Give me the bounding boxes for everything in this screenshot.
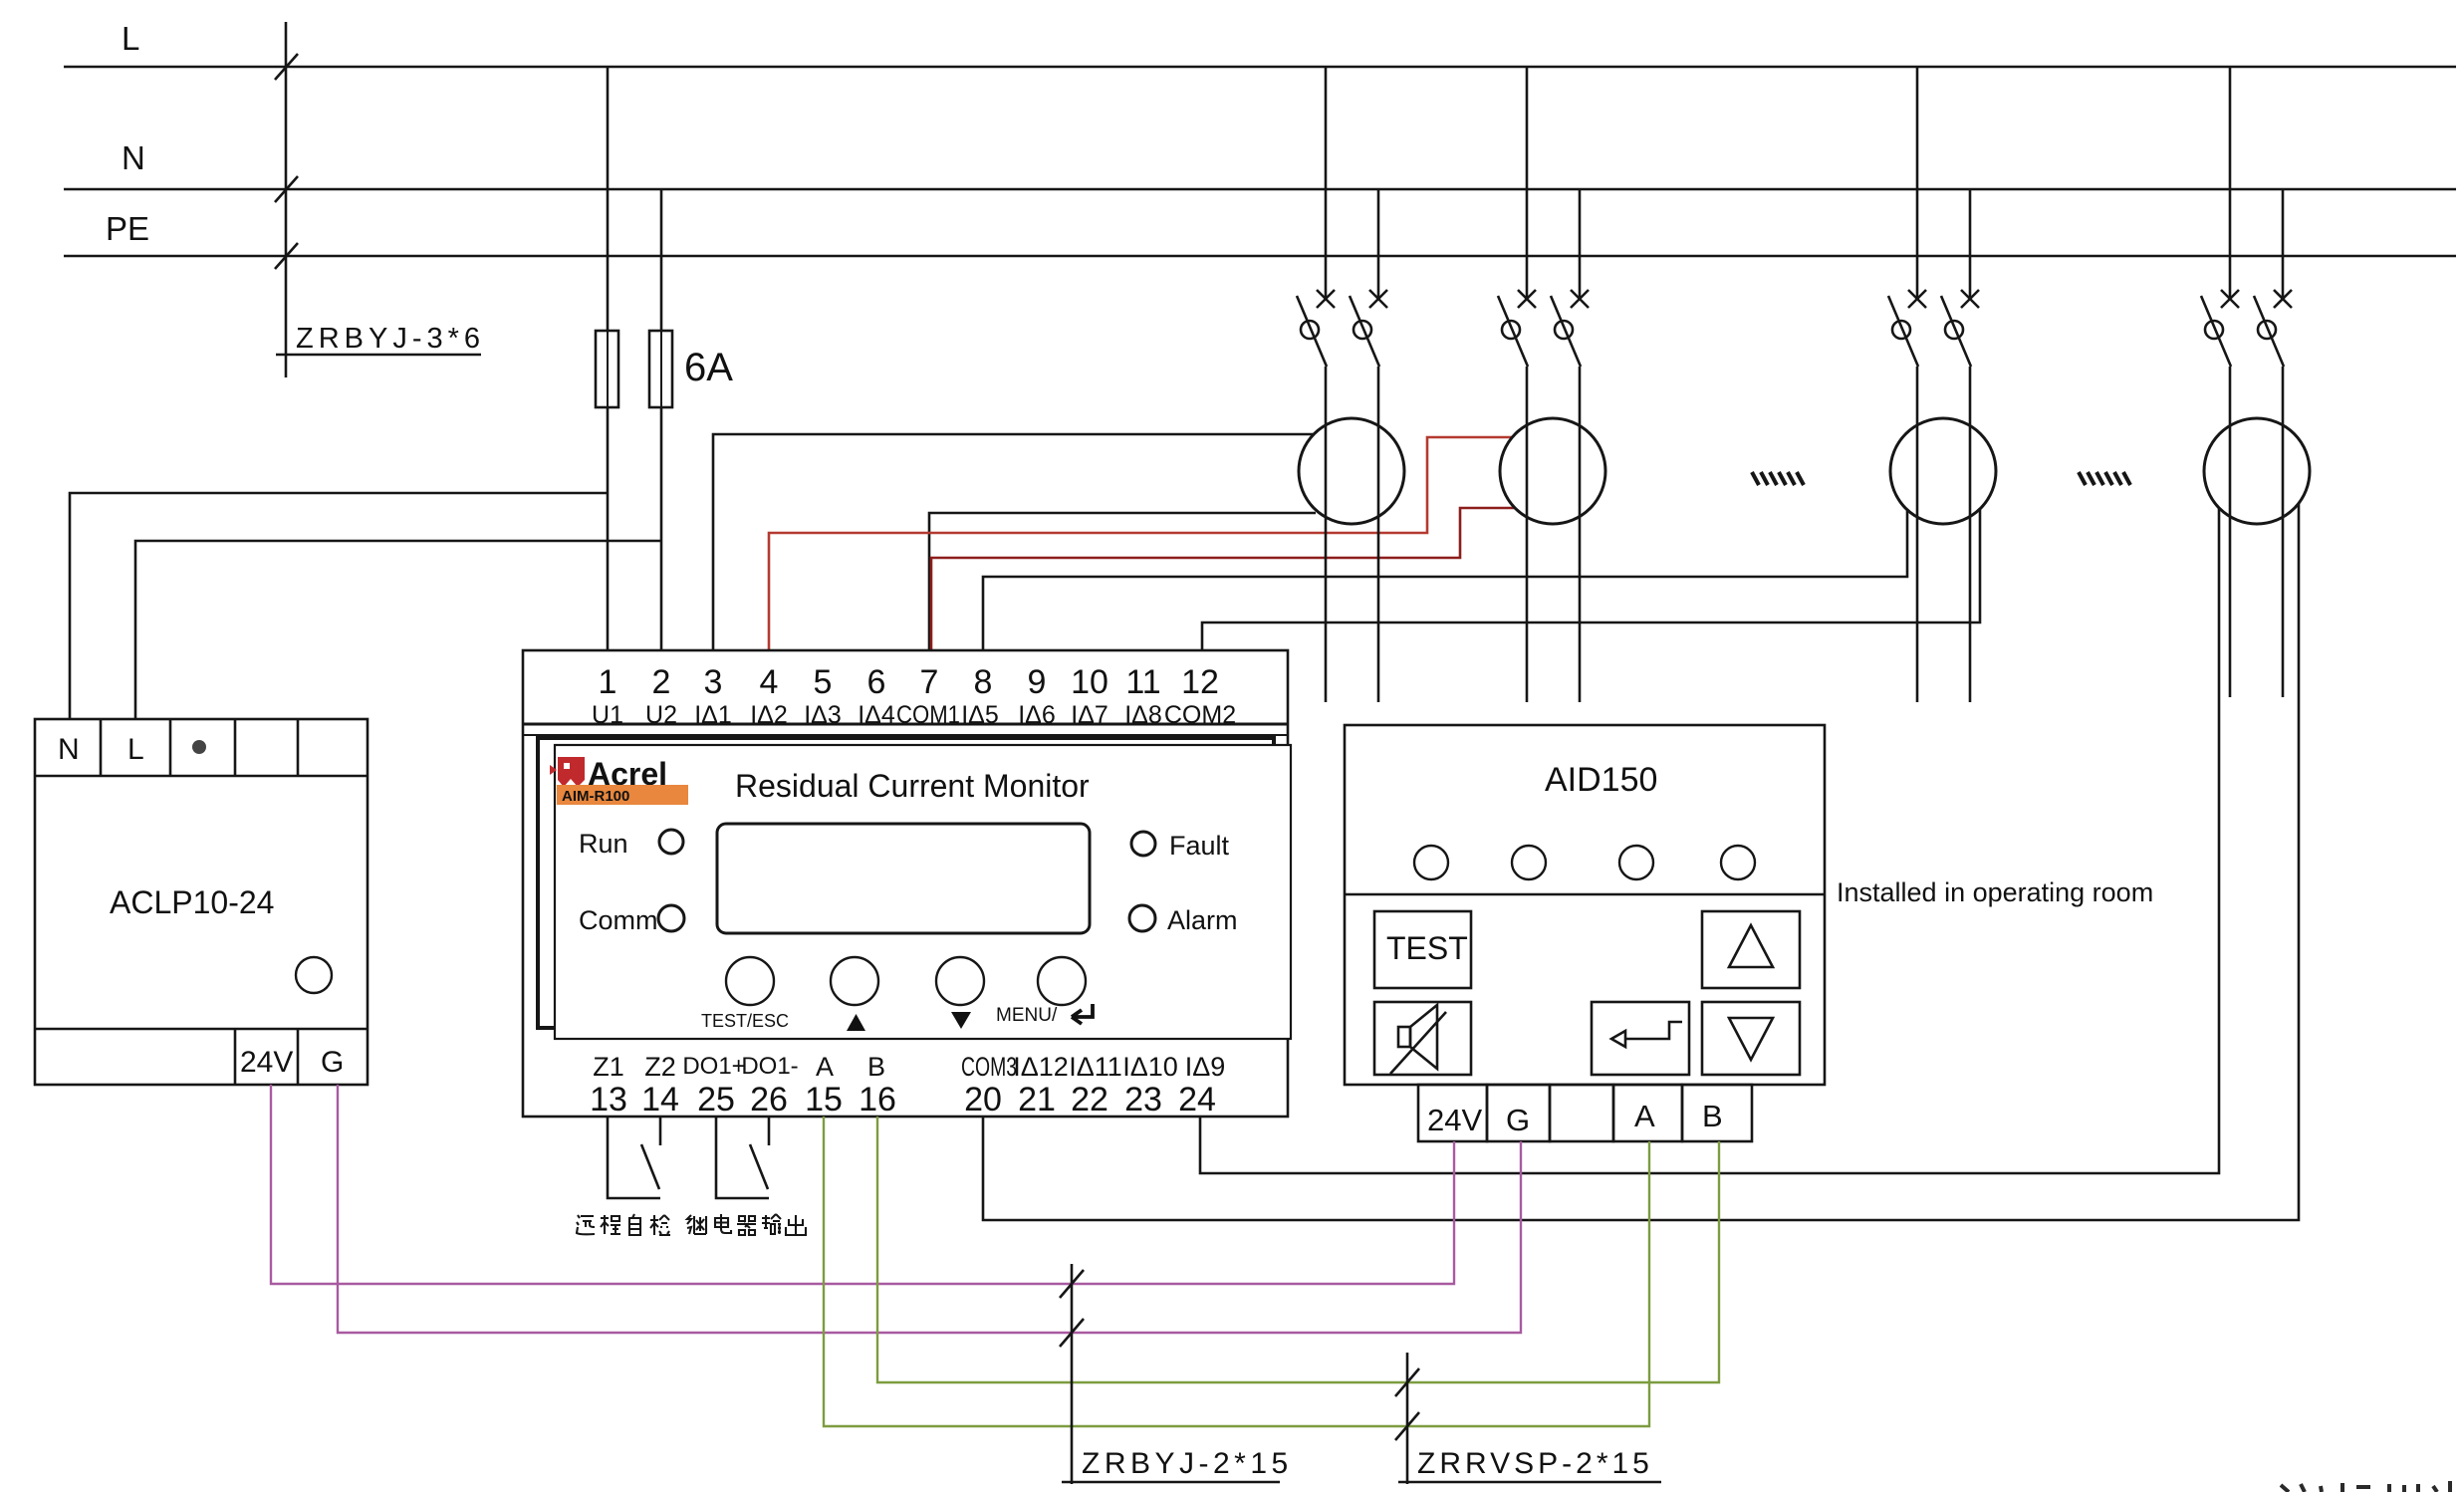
- button mute (speaker): [1374, 1002, 1471, 1075]
- breaker QF1a contact cross: [1317, 290, 1335, 308]
- slash on A wire: [1395, 1412, 1419, 1440]
- AID terminal row: [1418, 1085, 1487, 1141]
- svg-text:Alarm: Alarm: [1167, 905, 1238, 935]
- ACLP round button: [296, 957, 332, 993]
- svg-text:AID150: AID150: [1545, 761, 1657, 799]
- svg-text:5: 5: [814, 663, 833, 701]
- wire RS485 A monitor T15 to AID150 (green): [824, 1117, 1649, 1426]
- pin numbers 1-12: [599, 663, 1219, 701]
- CT2 zero-sequence transformer: [1500, 418, 1605, 524]
- label up triangle: [847, 1014, 865, 1031]
- svg-text:A: A: [1634, 1099, 1655, 1133]
- glyph 检: [650, 1215, 670, 1235]
- svg-text:25: 25: [697, 1081, 735, 1119]
- slash on B wire: [1395, 1368, 1419, 1396]
- svg-text:G: G: [321, 1046, 344, 1079]
- svg-text:26: 26: [750, 1081, 788, 1119]
- AID LED 2: [1512, 846, 1546, 879]
- cable label underline: [276, 354, 481, 357]
- svg-text:MENU/: MENU/: [996, 1005, 1058, 1026]
- svg-text:1: 1: [599, 663, 617, 701]
- svg-text:8: 8: [974, 663, 993, 701]
- branch 3 N wire to load: [1969, 367, 1972, 702]
- breaker QF2b blade and drive circle: [1551, 296, 1581, 367]
- LED Fault: [1131, 832, 1155, 856]
- cable leader ZRRVSP-2*15: [1406, 1353, 1409, 1484]
- branch 2 L wire to load: [1526, 367, 1529, 702]
- svg-text:COM1: COM1: [896, 701, 960, 729]
- wire ACLP L input to U2 line: [135, 541, 661, 719]
- svg-text:L: L: [127, 733, 144, 766]
- wire monitor T3 IΔ1 to CT1 upper: [713, 434, 1314, 650]
- wire N bus: [64, 188, 2456, 191]
- LED Run: [659, 830, 683, 854]
- ACLP top terminal dividers: [100, 719, 103, 776]
- ellipsis dashes group 2: [2079, 472, 2130, 485]
- glyph 输: [762, 1214, 781, 1234]
- breaker QF3a blade and drive circle: [1888, 296, 1918, 367]
- monitor front panel thick frame: [538, 738, 1274, 1028]
- svg-text:24V: 24V: [240, 1046, 293, 1079]
- ACLP indicator dot: [192, 740, 206, 754]
- wire PE bus: [64, 255, 2456, 258]
- wire monitor T7 COM1 to CT1 lower: [929, 513, 1316, 650]
- glyph 继: [687, 1215, 706, 1234]
- wire G power ACLP to AID150 (violet): [338, 1085, 1521, 1333]
- breaker QF3b contact cross: [1961, 290, 1979, 308]
- svg-text:15: 15: [805, 1081, 843, 1119]
- glyph 出: [786, 1215, 806, 1235]
- wire 24V power ACLP to AID150 (violet): [271, 1085, 1454, 1284]
- svg-text:IΔ12: IΔ12: [1013, 1052, 1069, 1082]
- monitor bottom pin names Z1..IΔ9: [593, 1052, 1225, 1082]
- CT1 zero-sequence transformer: [1299, 418, 1404, 524]
- svg-text:G: G: [1506, 1103, 1530, 1137]
- svg-text:23: 23: [1124, 1081, 1162, 1119]
- branch 3 N drop wire: [1969, 189, 1972, 300]
- button enter: [1592, 1002, 1689, 1075]
- branch 1 L drop wire: [1325, 67, 1328, 300]
- button down arrow: [1702, 1002, 1800, 1075]
- svg-text:DO1+: DO1+: [682, 1053, 745, 1080]
- breaker QF3a contact cross: [1908, 290, 1926, 308]
- branch 2 L drop wire: [1526, 67, 1529, 300]
- branch 2 N wire to load: [1579, 367, 1582, 702]
- corner watermark remnants: [2281, 1481, 2450, 1492]
- svg-text:IΔ5: IΔ5: [961, 701, 999, 729]
- pin names U1..COM2: [592, 701, 1236, 729]
- branch 3 L wire to load: [1916, 367, 1919, 702]
- breaker QF4b contact cross: [2274, 290, 2292, 308]
- monitor AIM-R100 outer box: [523, 650, 1288, 1117]
- svg-text:24V: 24V: [1427, 1103, 1482, 1137]
- svg-text:9: 9: [1028, 663, 1047, 701]
- svg-text:B: B: [1702, 1099, 1723, 1133]
- breaker QF1b blade and drive circle: [1350, 296, 1379, 367]
- remote display AID150 outline: [1345, 725, 1825, 1085]
- svg-text:IΔ1: IΔ1: [694, 701, 732, 729]
- svg-text:Fault: Fault: [1169, 831, 1230, 861]
- svg-text:AIM-R100: AIM-R100: [562, 788, 629, 805]
- svg-text:7: 7: [920, 663, 939, 701]
- cable label underline: [1398, 1481, 1661, 1484]
- svg-text:20: 20: [964, 1081, 1002, 1119]
- breaker QF2a contact cross: [1518, 290, 1536, 308]
- monitor bottom pin numbers: [590, 1081, 1216, 1119]
- svg-text:B: B: [867, 1052, 885, 1082]
- svg-text:COM2: COM2: [1164, 701, 1236, 729]
- svg-text:4: 4: [760, 663, 779, 701]
- svg-text:6: 6: [867, 663, 886, 701]
- glyph 自: [629, 1214, 640, 1235]
- svg-text:11: 11: [1125, 663, 1160, 701]
- svg-text:ACLP10-24: ACLP10-24: [110, 884, 274, 920]
- branch 4 L wire to load: [2229, 367, 2232, 697]
- node slash on L bus: [275, 54, 298, 80]
- breaker QF2a blade and drive circle: [1498, 296, 1528, 367]
- glyph 远: [577, 1215, 595, 1234]
- svg-text:Residual Current Monitor: Residual Current Monitor: [735, 768, 1090, 804]
- Acrel logo mark: [550, 757, 585, 787]
- breaker QF4b blade and drive circle: [2254, 296, 2284, 367]
- breaker QF4a blade and drive circle: [2201, 296, 2231, 367]
- svg-text:22: 22: [1071, 1081, 1109, 1119]
- svg-text:21: 21: [1018, 1081, 1056, 1119]
- monitor front panel white face: [555, 745, 1291, 1039]
- branch 1 N wire to load: [1377, 367, 1380, 702]
- svg-text:Installed in operating room: Installed in operating room: [1837, 877, 2153, 907]
- button down: [936, 957, 984, 1005]
- svg-text:24: 24: [1178, 1081, 1216, 1119]
- AID divider: [1345, 893, 1825, 896]
- svg-text:IΔ8: IΔ8: [1124, 701, 1162, 729]
- svg-text:U2: U2: [645, 701, 677, 729]
- branch 4 N wire to load: [2282, 367, 2285, 697]
- breaker QF2b contact cross: [1571, 290, 1589, 308]
- breaker QF1a blade and drive circle: [1297, 296, 1327, 367]
- glyph 器: [737, 1216, 756, 1235]
- fuse FU1: [596, 331, 618, 407]
- breaker QF4a contact cross: [2221, 290, 2239, 308]
- svg-text:16: 16: [859, 1081, 896, 1119]
- wire monitor T8 IΔ5 to CT3 left secondary: [983, 510, 1907, 650]
- AID LED 1: [1414, 846, 1448, 879]
- label enter arrow: [1072, 1004, 1093, 1024]
- ACLP bottom terminal dividers: [234, 1029, 237, 1085]
- svg-text:IΔ10: IΔ10: [1122, 1052, 1178, 1082]
- svg-text:TEST: TEST: [1386, 930, 1468, 966]
- button menu/enter: [1038, 957, 1086, 1005]
- slash on G wire: [1060, 1319, 1084, 1347]
- CT3 zero-sequence transformer: [1890, 418, 1996, 524]
- svg-text:IΔ9: IΔ9: [1185, 1052, 1226, 1082]
- relay contact K1 remote self-test (T13/T14): [608, 1117, 660, 1198]
- AID LED 4: [1721, 846, 1755, 879]
- svg-text:12: 12: [1181, 663, 1219, 701]
- svg-text:DO1-: DO1-: [741, 1053, 798, 1080]
- svg-text:ZRRVSP-2*15: ZRRVSP-2*15: [1417, 1447, 1653, 1480]
- svg-text:N: N: [122, 139, 145, 176]
- svg-text:Comm: Comm: [579, 905, 658, 935]
- svg-text:N: N: [58, 733, 80, 766]
- monitor top strip separator: [523, 723, 1288, 726]
- AID LED 3: [1619, 846, 1653, 879]
- wire monitor T12 COM2 to CT3 right secondary: [1202, 509, 1980, 650]
- svg-text:ZRBYJ-2*15: ZRBYJ-2*15: [1082, 1447, 1293, 1480]
- node feeder leader line: [285, 22, 288, 377]
- label 远程自检 继电器输出 (drawn strokes, CJK font unavailable): [577, 1214, 806, 1235]
- LCD display window: [717, 824, 1090, 933]
- wire L bus: [64, 66, 2456, 69]
- wire monitor T20 COM3 to CT4 right secondary: [983, 503, 2299, 1220]
- svg-text:IΔ7: IΔ7: [1071, 701, 1109, 729]
- wire RS485 B monitor T16 to AID150 (green): [877, 1117, 1719, 1382]
- power supply ACLP10-24 outline: [35, 719, 368, 1085]
- svg-text:Z2: Z2: [644, 1052, 676, 1082]
- svg-text:IΔ3: IΔ3: [804, 701, 842, 729]
- glyph 电: [715, 1214, 731, 1233]
- branch 1 N drop wire: [1377, 189, 1380, 300]
- svg-text:TEST/ESC: TEST/ESC: [701, 1011, 789, 1031]
- svg-text:A: A: [816, 1052, 834, 1082]
- svg-text:IΔ4: IΔ4: [858, 701, 895, 729]
- button TEST/ESC: [726, 957, 774, 1005]
- cable leader ZRBYJ-2*15: [1071, 1264, 1074, 1484]
- svg-text:6A: 6A: [684, 346, 733, 389]
- glyph 程: [601, 1215, 620, 1234]
- button up: [831, 957, 878, 1005]
- node slash on N bus: [275, 176, 298, 202]
- svg-text:L: L: [122, 20, 139, 57]
- LED Comm: [658, 905, 684, 931]
- slash on 24V wire: [1060, 1270, 1084, 1298]
- AIM-R100 orange banner: [557, 785, 688, 805]
- svg-text:U1: U1: [592, 701, 623, 729]
- wire ACLP N input to U1 line: [70, 493, 608, 719]
- svg-text:Z1: Z1: [593, 1052, 624, 1082]
- ACLP bottom terminal row separator: [35, 1028, 368, 1031]
- fuse FU2: [649, 331, 672, 407]
- wire U2 supply from N bus to monitor terminal 2: [660, 189, 663, 650]
- svg-text:PE: PE: [106, 210, 149, 247]
- branch 4 N drop wire: [2282, 189, 2285, 300]
- ellipsis dashes group 1: [1752, 472, 1804, 485]
- svg-text:10: 10: [1071, 663, 1109, 701]
- svg-text:ZRBYJ-3*6: ZRBYJ-3*6: [296, 323, 485, 355]
- svg-text:IΔ2: IΔ2: [750, 701, 788, 729]
- svg-text:2: 2: [652, 663, 671, 701]
- wire U1 supply from L bus to monitor terminal 1: [607, 67, 610, 650]
- svg-text:IΔ11: IΔ11: [1069, 1052, 1122, 1082]
- ACLP top terminal row separator: [35, 775, 368, 778]
- branch 1 L wire to load: [1325, 367, 1328, 702]
- branch 3 L drop wire: [1916, 67, 1919, 300]
- svg-text:14: 14: [641, 1081, 679, 1119]
- node slash on PE bus: [275, 243, 298, 269]
- svg-text:13: 13: [590, 1081, 627, 1119]
- CT4 zero-sequence transformer: [2204, 418, 2310, 524]
- button up arrow: [1702, 911, 1800, 988]
- svg-text:Run: Run: [579, 829, 628, 859]
- wire monitor T24 IΔ9 to CT4 left secondary: [1200, 508, 2219, 1173]
- svg-text:3: 3: [704, 663, 723, 701]
- relay contact K2 relay output (T25/T26): [716, 1117, 769, 1198]
- label down triangle: [951, 1012, 971, 1029]
- breaker QF3b blade and drive circle: [1941, 296, 1971, 367]
- button TEST: [1374, 911, 1471, 988]
- svg-text:IΔ6: IΔ6: [1018, 701, 1056, 729]
- branch 4 L drop wire: [2229, 67, 2232, 300]
- wire monitor T7 COM1 to CT2 lower (dark red): [931, 508, 1515, 650]
- branch 2 N drop wire: [1579, 189, 1582, 300]
- breaker QF1b contact cross: [1369, 290, 1387, 308]
- cable label underline: [1062, 1481, 1280, 1484]
- wire monitor T4 IΔ2 to CT2 upper (red): [769, 437, 1512, 650]
- svg-text:COM3: COM3: [961, 1052, 1017, 1082]
- LED Alarm: [1129, 905, 1155, 931]
